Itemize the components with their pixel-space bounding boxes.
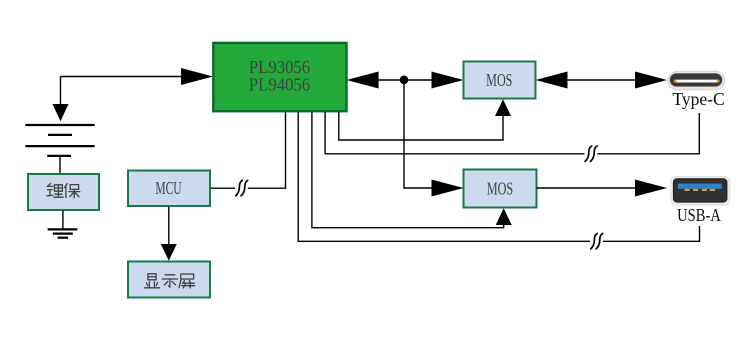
char 锂 (47, 184, 63, 198)
wire Type-C return to U1 pin4 (325, 112, 699, 154)
connector J1 Type-C icon (668, 71, 725, 89)
wire U1 right to MOS1 with double arrows (379, 79, 432, 81)
connector J2 USB-A icon (671, 177, 730, 205)
wire MOS2 to USB-A (537, 187, 636, 189)
char 显 (145, 274, 160, 288)
wire protection box to ground (62, 211, 64, 230)
IC U1 PL93056/PL94056 (213, 43, 346, 111)
svg-text:MCU: MCU (155, 180, 181, 199)
wire MCU to display (168, 207, 170, 245)
wire battery feed horizontal (61, 76, 182, 78)
arrowhead up into MOS2 bottom (496, 208, 512, 225)
arrowhead into MOS1 left (432, 72, 464, 89)
char 保 (65, 184, 80, 198)
arrowhead into USB-A (635, 180, 667, 197)
svg-text:Type-C: Type-C (672, 89, 724, 109)
wire battery feed vertical (60, 77, 62, 105)
box MCU (128, 171, 210, 207)
wire U1 pin1 to MCU (211, 112, 286, 188)
squiggle break symbol on MCU wire (236, 180, 248, 195)
arrowhead up into MOS1 bottom (495, 99, 511, 116)
box MOS Q2 (464, 170, 537, 208)
junction node dot (400, 76, 409, 85)
wire MOS1 to Type-C double arrow (568, 79, 636, 81)
text 锂保 (drawn strokes) (47, 184, 80, 198)
wire junction down to MOS2 (404, 80, 432, 188)
battery B1 plate long bottom (25, 145, 94, 147)
svg-text:MOS: MOS (487, 180, 513, 199)
wire U1 pin3 to MOS2 bottom (312, 112, 504, 228)
battery B1 plate long top (25, 124, 94, 126)
wire battery to protection box (59, 156, 61, 173)
wire U1 pin5 to MOS1 bottom (339, 112, 503, 140)
box display 显示屏 (128, 262, 210, 298)
svg-text:USB-A: USB-A (677, 207, 721, 225)
svg-text:MOS: MOS (486, 72, 512, 91)
squiggle break symbol on USB-A return (591, 234, 603, 249)
box lithium-protection 锂保 (28, 174, 99, 210)
arrowhead down into battery (53, 104, 69, 121)
text 显示屏 (drawn strokes) (145, 274, 195, 288)
wire USB-A return to U1 pin2 (298, 112, 699, 241)
battery B1 plate short (48, 134, 72, 136)
arrowhead into PL93056 left (181, 68, 213, 85)
arrowhead into MOS1 right (536, 72, 568, 89)
battery B1 plate short bottom (47, 155, 71, 157)
arrowhead into Type-C (635, 72, 667, 89)
arrowhead into MOS2 left (432, 180, 464, 197)
arrowhead down into display (161, 244, 177, 261)
box MOS Q1 (464, 62, 536, 99)
arrowhead into U1 right (347, 72, 379, 89)
char 示 (162, 275, 177, 287)
svg-text:PL94056: PL94056 (249, 75, 311, 94)
squiggle break symbol on Type-C return (585, 146, 597, 161)
ground (48, 229, 78, 237)
char 屏 (179, 274, 195, 288)
